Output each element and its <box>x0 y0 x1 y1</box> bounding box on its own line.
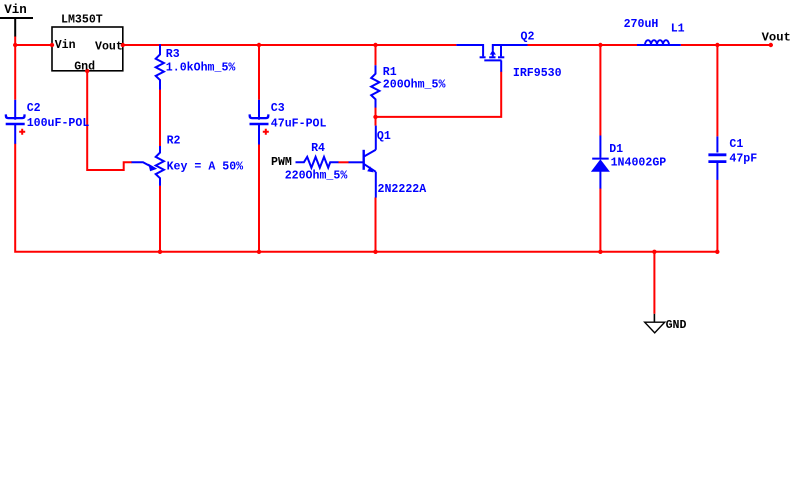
svg-text:Q2: Q2 <box>521 30 535 43</box>
svg-text:R3: R3 <box>166 48 180 61</box>
svg-text:R4: R4 <box>311 142 325 155</box>
svg-text:220Ohm_5%: 220Ohm_5% <box>285 170 348 183</box>
svg-text:Key = A 50%: Key = A 50% <box>167 161 244 174</box>
svg-text:2N2222A: 2N2222A <box>378 183 427 196</box>
svg-text:Vout: Vout <box>95 40 123 53</box>
svg-text:GND: GND <box>666 319 687 332</box>
svg-text:47uF-POL: 47uF-POL <box>271 117 327 130</box>
svg-text:1.0kOhm_5%: 1.0kOhm_5% <box>166 62 236 75</box>
svg-text:100uF-POL: 100uF-POL <box>27 117 90 130</box>
svg-text:Vin: Vin <box>4 3 27 17</box>
svg-text:Vout: Vout <box>762 30 791 44</box>
svg-text:L1: L1 <box>671 22 685 35</box>
svg-text:1N4002GP: 1N4002GP <box>611 157 667 170</box>
svg-text:Gnd: Gnd <box>74 60 95 73</box>
svg-text:C3: C3 <box>271 102 285 115</box>
svg-text:C1: C1 <box>729 138 743 151</box>
svg-text:IRF9530: IRF9530 <box>513 67 562 80</box>
svg-text:Q1: Q1 <box>377 130 391 143</box>
svg-text:200Ohm_5%: 200Ohm_5% <box>383 79 446 92</box>
svg-text:R2: R2 <box>167 135 181 148</box>
svg-text:R1: R1 <box>383 66 397 79</box>
svg-text:D1: D1 <box>609 143 623 156</box>
svg-text:270uH: 270uH <box>624 18 659 31</box>
svg-text:LM350T: LM350T <box>61 14 103 27</box>
svg-text:47pF: 47pF <box>729 152 757 165</box>
svg-text:C2: C2 <box>27 102 41 115</box>
svg-text:Vin: Vin <box>55 39 76 52</box>
svg-text:PWM: PWM <box>271 156 292 169</box>
